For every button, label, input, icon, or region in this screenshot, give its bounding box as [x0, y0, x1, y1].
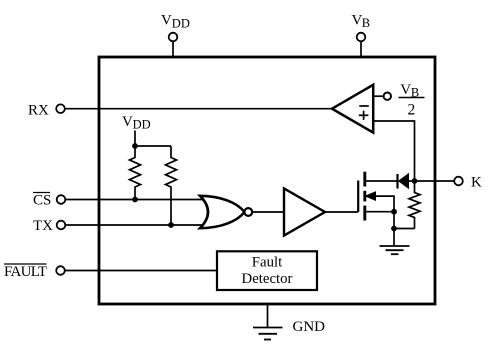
- wire Q1 drain to diode: [365, 180, 398, 182]
- node junction VDD rail: [132, 143, 138, 149]
- svg-text:V: V: [122, 114, 133, 130]
- svg-text:V: V: [400, 82, 411, 98]
- transistor Q1 MOSFET: [358, 172, 375, 221]
- node junction source-body: [391, 209, 397, 215]
- svg-text:Detector: Detector: [242, 271, 293, 287]
- wire Q1 source: [365, 211, 394, 213]
- pin VDD terminal circle: [169, 33, 178, 42]
- pin FAULT label with overline: [4, 264, 47, 280]
- pin VB terminal circle: [357, 33, 366, 42]
- wire Q1 body to source: [375, 196, 395, 228]
- node junction K: [412, 178, 418, 184]
- wire TX to NOR input: [65, 224, 208, 226]
- node VB/2 reference circle: [384, 93, 391, 100]
- wire resistor bottom to source: [394, 228, 415, 230]
- wire CS to NOR input: [65, 199, 208, 201]
- wire VDD rail horizontal: [135, 145, 171, 147]
- op-amp comparator U1: [332, 85, 373, 133]
- pin K terminal circle: [454, 177, 463, 186]
- pin CS label with overline: [33, 193, 51, 209]
- wire comparator plus input to K node: [373, 121, 414, 181]
- node junction source-resistor: [391, 226, 397, 232]
- svg-text:K: K: [471, 175, 482, 191]
- svg-text:2: 2: [408, 101, 416, 118]
- node junction R1-CS: [132, 197, 138, 203]
- buffer U3: [284, 189, 325, 236]
- diode D1: [398, 174, 409, 189]
- wire buffer output to gate: [325, 211, 358, 213]
- resistor R1 pull-up on CS: [130, 146, 141, 200]
- wire to internal ground: [393, 229, 395, 247]
- node junction R2-TX: [168, 222, 174, 228]
- wire NOR output to buffer: [252, 211, 284, 213]
- wire K line: [415, 180, 455, 182]
- wire RX to comparator output: [65, 108, 333, 110]
- NOR gate U2: [200, 196, 252, 228]
- resistor R3 to ground: [409, 181, 420, 229]
- ground symbol internal: [380, 246, 410, 254]
- wire VDD pin to box: [172, 41, 174, 57]
- wire comparator minus input: [373, 95, 383, 97]
- svg-text:FAULT: FAULT: [4, 264, 47, 280]
- svg-text:B: B: [362, 16, 370, 30]
- wire FAULT to fault detector: [65, 270, 217, 272]
- label VDD internal: [122, 114, 151, 132]
- IC boundary box: [99, 57, 435, 304]
- pin RX terminal circle: [56, 104, 65, 113]
- ground symbol GND pin: [253, 328, 283, 340]
- pin VB label: [352, 12, 371, 30]
- resistor R2 pull-up on TX: [166, 146, 177, 225]
- wire GND pin: [267, 304, 269, 328]
- pin CS terminal circle: [57, 195, 66, 204]
- wire VDD internal down: [134, 131, 136, 147]
- svg-text:DD: DD: [133, 117, 151, 131]
- fault detector block: [217, 251, 317, 290]
- svg-text:RX: RX: [28, 103, 49, 119]
- svg-text:CS: CS: [33, 193, 51, 209]
- pin VDD label: [161, 13, 190, 31]
- wire diode anode to K node: [409, 180, 415, 182]
- pin FAULT terminal circle: [56, 266, 65, 275]
- svg-text:DD: DD: [172, 16, 190, 30]
- svg-text:V: V: [161, 13, 172, 29]
- svg-text:Fault: Fault: [252, 254, 283, 270]
- wire VB pin to box: [360, 41, 362, 57]
- label VB/2: [399, 82, 425, 118]
- svg-text:TX: TX: [33, 218, 53, 234]
- pin TX terminal circle: [57, 221, 66, 230]
- svg-text:GND: GND: [293, 319, 326, 335]
